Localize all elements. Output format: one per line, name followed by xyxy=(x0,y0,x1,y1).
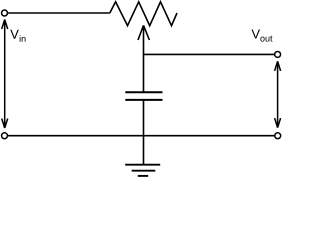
Vin measurement arrow (double-headed) xyxy=(2,20,8,129)
label Vin "V" xyxy=(10,30,19,39)
capacitor C1 bottom plate xyxy=(125,99,162,101)
terminal BR (Vout bottom) xyxy=(275,133,281,139)
label Vin subscript "in" xyxy=(20,35,26,42)
wire top rail xyxy=(8,12,110,14)
ground xyxy=(125,165,160,176)
capacitor C1 top plate xyxy=(125,91,162,93)
resistor R1 (potentiometer element) xyxy=(110,2,177,26)
label Vout subscript "out" xyxy=(260,36,272,42)
terminal BL (Vin bottom) xyxy=(2,133,8,139)
terminal TR (Vout top) xyxy=(275,51,281,57)
wire bottom rail xyxy=(8,135,275,137)
terminal TL (Vin top) xyxy=(2,10,8,16)
wire capacitor to ground xyxy=(143,100,145,165)
label Vout "V" xyxy=(251,29,260,38)
wiper arrow of potentiometer xyxy=(138,25,149,92)
wire output (wiper to Vout terminal) xyxy=(144,53,275,55)
Vout measurement arrow (double-headed) xyxy=(275,61,281,127)
